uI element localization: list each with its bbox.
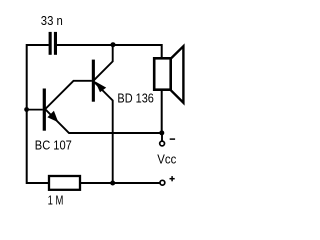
speaker LS1 cone <box>171 46 184 102</box>
transistor Q2 BD 136 collector line up to top node <box>94 45 113 80</box>
svg-text:BC 107: BC 107 <box>35 137 72 152</box>
wire stub from minus node down to minus terminal <box>161 133 163 141</box>
resistor R1 <box>49 176 80 190</box>
wire from capacitor C1 right plate to top-right corner down to speaker <box>57 45 162 58</box>
svg-text:BD 136: BD 136 <box>117 91 153 106</box>
transistor Q1 BC 107 emitter line down to minus rail <box>44 108 161 133</box>
terminal minus (open circle) <box>160 141 165 146</box>
plus sign label <box>170 176 175 181</box>
wire top-left segment and left rail down to bottom rail <box>27 45 49 183</box>
wire speaker LS1 bottom down to minus node <box>161 91 163 133</box>
svg-text:Vcc: Vcc <box>157 151 177 166</box>
node junction speaker / BC107 emitter / minus terminal <box>159 130 164 135</box>
node junction top wire / BD136 collector <box>111 42 116 47</box>
transistor Q1 BC 107 collector line up to BD136 base <box>44 81 92 110</box>
transistor Q2 BD 136 emitter arrow (PNP, pointing in) <box>95 81 106 92</box>
minus sign label <box>170 138 175 140</box>
svg-text:33 n: 33 n <box>41 13 63 28</box>
transistor Q1 BC 107 base bar <box>43 89 46 131</box>
transistor Q1 BC 107 emitter arrow (NPN, pointing out) <box>47 111 58 123</box>
wire bottom rail from resistor R1 to plus terminal <box>81 182 160 184</box>
node junction BD136 emitter / plus rail <box>110 181 115 186</box>
node junction left rail / BC107 base <box>24 107 29 112</box>
capacitor C1 plates <box>49 32 57 55</box>
svg-text:1 M: 1 M <box>48 193 64 208</box>
speaker LS1 body <box>154 58 171 89</box>
transistor Q2 BD 136 emitter line down to plus rail <box>94 82 113 183</box>
transistor Q2 BD 136 base bar <box>92 60 95 102</box>
terminal plus (open circle) <box>160 180 165 185</box>
wire BC107 base from left rail <box>27 109 43 111</box>
